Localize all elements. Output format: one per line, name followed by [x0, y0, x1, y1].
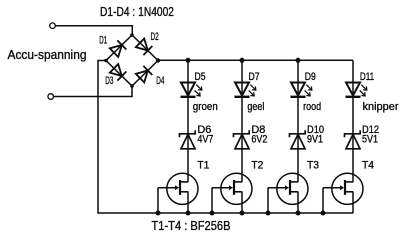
diode D1	[110, 40, 127, 57]
junction: T3 gate on rail	[266, 211, 271, 216]
junction: top rail branch 2	[240, 58, 245, 63]
svg-text:D3: D3	[105, 75, 113, 87]
label 4V7	[197, 134, 213, 146]
label 9V1	[307, 134, 323, 146]
terminal (-) bottom	[48, 94, 54, 100]
label D10	[307, 124, 324, 136]
label T3	[307, 160, 319, 172]
node: bridge top	[130, 33, 134, 37]
zener D8	[234, 130, 250, 149]
svg-text:T2: T2	[251, 160, 263, 172]
wire: branch 1 drain chain	[187, 60, 189, 173]
label D7	[249, 71, 260, 83]
label: Accu-spanning	[8, 47, 87, 62]
zener D12	[345, 130, 361, 149]
svg-text:T4: T4	[362, 160, 374, 172]
svg-text:D1: D1	[99, 35, 107, 47]
junction: T2 source on rail	[240, 211, 245, 216]
svg-text:9V1: 9V1	[307, 134, 323, 146]
label D8	[251, 124, 265, 136]
label D1	[99, 35, 107, 47]
wire: positive top rail	[158, 59, 353, 61]
wire: branch 3 drain chain	[297, 60, 299, 173]
junction: T2 gate on rail	[210, 211, 215, 216]
svg-text:groen: groen	[193, 101, 218, 113]
diode D4	[136, 66, 153, 83]
node: bridge left	[104, 59, 108, 63]
svg-text:D4: D4	[156, 75, 164, 87]
node: bridge bottom	[130, 84, 134, 88]
transistor T3	[268, 173, 308, 214]
svg-text:T1-T4 : BF256B: T1-T4 : BF256B	[152, 218, 231, 233]
LED D11	[346, 83, 367, 97]
svg-text:D5: D5	[195, 71, 206, 83]
wire: branch 2 drain chain	[241, 60, 243, 173]
label D6	[197, 124, 211, 136]
svg-text:D2: D2	[151, 31, 159, 43]
junction: top rail branch 3	[296, 58, 301, 63]
node: bridge right	[156, 58, 160, 62]
label D2	[151, 31, 159, 43]
junction: T1 gate on rail	[156, 211, 161, 216]
wire: negative rail (left node down and along bottom)	[98, 61, 353, 214]
label: D1-D4 : 1N4002	[100, 4, 174, 19]
label groen	[193, 101, 218, 113]
label D11	[360, 71, 374, 83]
junction: T1 source on rail	[186, 211, 191, 216]
label rood	[303, 101, 321, 113]
label T2	[251, 160, 263, 172]
wire: top terminal to bridge top node	[55, 26, 132, 35]
label T1	[197, 160, 209, 172]
label geel	[247, 101, 264, 113]
transistor T2	[212, 173, 252, 214]
svg-text:6V2: 6V2	[251, 134, 267, 146]
terminal (+) top	[50, 23, 56, 29]
junction: T3 source on rail	[296, 211, 301, 216]
zener D10	[290, 130, 306, 149]
LED D9	[291, 83, 312, 97]
svg-text:geel: geel	[247, 101, 264, 113]
LED D7	[235, 83, 256, 97]
label D9	[305, 71, 316, 83]
svg-text:D9: D9	[305, 71, 316, 83]
svg-text:rood: rood	[303, 101, 321, 113]
label D4	[156, 75, 164, 87]
LED D5	[181, 83, 202, 97]
svg-text:knipper: knipper	[363, 101, 399, 113]
diode D3	[110, 64, 127, 81]
label D3	[105, 75, 113, 87]
label knipper	[363, 101, 399, 113]
svg-text:D1-D4 : 1N4002: D1-D4 : 1N4002	[100, 4, 174, 19]
wire: bottom terminal to bridge bottom node	[54, 86, 133, 97]
label T4	[362, 160, 374, 172]
label 6V2	[251, 134, 267, 146]
svg-text:T3: T3	[307, 160, 319, 172]
svg-text:T1: T1	[197, 160, 209, 172]
svg-text:5V1: 5V1	[362, 134, 378, 146]
diode D2	[136, 38, 153, 55]
svg-text:4V7: 4V7	[197, 134, 213, 146]
wire: branch 4 drain chain	[352, 60, 354, 173]
label 5V1	[362, 134, 378, 146]
svg-text:D11: D11	[360, 71, 374, 83]
label D5	[195, 71, 206, 83]
zener D6	[180, 130, 196, 149]
transistor T4	[323, 173, 363, 214]
junction: top rail branch 1	[186, 58, 191, 63]
label: T1-T4 : BF256B	[152, 218, 231, 233]
label D12	[362, 124, 379, 136]
svg-text:Accu-spanning: Accu-spanning	[8, 47, 87, 62]
svg-text:D7: D7	[249, 71, 260, 83]
transistor T1	[158, 173, 198, 214]
junction: T4 gate on rail	[321, 211, 326, 216]
wire: bridge diamond	[106, 35, 158, 86]
